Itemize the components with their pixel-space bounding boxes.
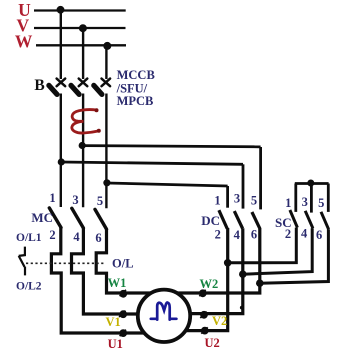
- svg-text:MC: MC: [31, 210, 53, 225]
- svg-text:2: 2: [215, 227, 221, 241]
- svg-text:W1: W1: [108, 276, 127, 290]
- svg-text:4: 4: [234, 228, 241, 242]
- svg-text:V1: V1: [106, 315, 121, 329]
- svg-text:6: 6: [95, 231, 101, 245]
- svg-text:1: 1: [285, 196, 291, 210]
- svg-text:O/L2: O/L2: [16, 281, 42, 293]
- svg-text:3: 3: [72, 193, 78, 207]
- svg-text:B: B: [34, 77, 44, 94]
- svg-text:V2: V2: [212, 314, 227, 328]
- svg-text:O/L: O/L: [112, 256, 134, 270]
- svg-text:U1: U1: [108, 337, 123, 350]
- svg-text:4: 4: [301, 226, 308, 240]
- svg-text:3: 3: [302, 195, 308, 209]
- svg-text:2: 2: [49, 228, 55, 242]
- svg-text:MPCB: MPCB: [117, 94, 154, 108]
- svg-text:W2: W2: [200, 277, 219, 291]
- svg-text:3: 3: [234, 192, 240, 206]
- svg-text:1: 1: [49, 191, 55, 205]
- svg-text:5: 5: [318, 196, 324, 210]
- svg-text:W: W: [15, 31, 33, 51]
- svg-text:6: 6: [251, 228, 257, 242]
- svg-text:1: 1: [214, 193, 220, 207]
- svg-text:5: 5: [97, 194, 103, 208]
- svg-text:O/L1: O/L1: [16, 232, 42, 244]
- svg-text:4: 4: [73, 230, 80, 244]
- svg-text:2: 2: [285, 227, 291, 241]
- svg-text:DC: DC: [201, 213, 220, 228]
- svg-text:5: 5: [251, 193, 257, 207]
- svg-text:6: 6: [316, 228, 322, 242]
- svg-text:U2: U2: [205, 336, 220, 350]
- svg-text:MCCB: MCCB: [117, 68, 155, 82]
